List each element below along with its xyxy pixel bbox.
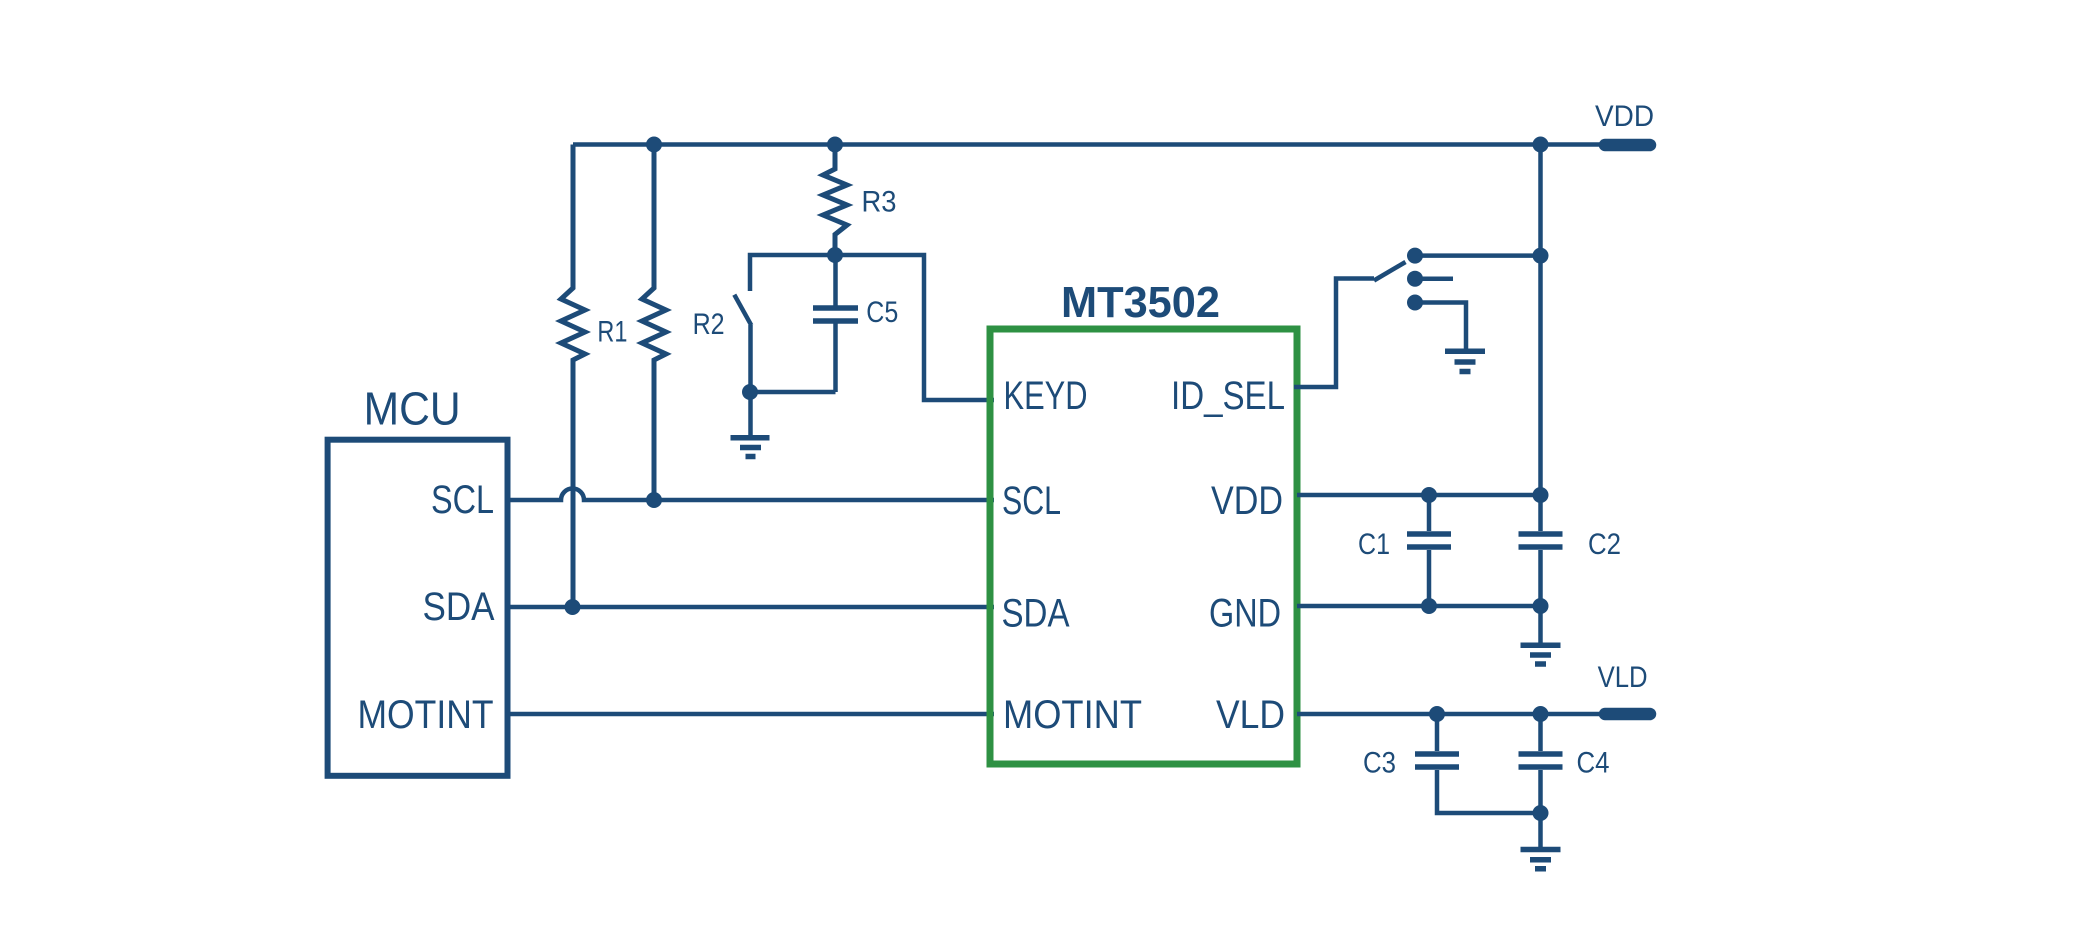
svg-text:SDA: SDA <box>1002 592 1070 636</box>
svg-text:SCL: SCL <box>1002 479 1061 523</box>
svg-text:R1: R1 <box>597 315 627 348</box>
svg-text:KEYD: KEYD <box>1004 374 1088 418</box>
svg-text:VLD: VLD <box>1598 661 1648 694</box>
svg-text:R2: R2 <box>693 308 725 341</box>
svg-text:C3: C3 <box>1363 747 1396 780</box>
svg-text:C2: C2 <box>1588 528 1621 561</box>
svg-text:R3: R3 <box>862 186 897 219</box>
svg-text:SDA: SDA <box>423 585 495 629</box>
svg-text:MOTINT: MOTINT <box>1003 693 1142 737</box>
svg-text:SCL: SCL <box>431 478 494 522</box>
svg-text:MOTINT: MOTINT <box>358 693 494 737</box>
svg-text:C1: C1 <box>1358 528 1390 561</box>
svg-text:C5: C5 <box>866 296 898 329</box>
svg-text:VLD: VLD <box>1216 693 1285 737</box>
svg-text:GND: GND <box>1209 592 1281 636</box>
svg-text:MCU: MCU <box>364 383 461 435</box>
svg-text:VDD: VDD <box>1595 100 1654 133</box>
svg-text:C4: C4 <box>1577 747 1610 780</box>
svg-text:ID_SEL: ID_SEL <box>1171 374 1285 418</box>
svg-text:MT3502: MT3502 <box>1061 278 1220 327</box>
svg-text:VDD: VDD <box>1211 479 1283 523</box>
